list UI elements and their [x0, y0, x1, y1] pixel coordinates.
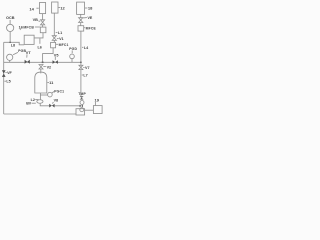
svg-text:12: 12 [60, 5, 65, 10]
svg-text:19: 19 [95, 98, 100, 103]
leader PGC [52, 92, 54, 94]
label PGD [69, 47, 77, 51]
label TMP [78, 92, 86, 96]
svg-text:V1: V1 [59, 37, 64, 41]
wire chamber exhaust [39, 93, 41, 100]
leader to label 18 [85, 7, 87, 9]
wire PGD stem [71, 59, 73, 63]
leader OCB [9, 20, 11, 24]
wire VE to MFCE [80, 23, 82, 26]
label L4 [84, 46, 89, 50]
leader VF [5, 71, 6, 73]
MFC unit MFCB [40, 27, 46, 33]
svg-text:VB: VB [33, 18, 39, 22]
leader L4 [82, 46, 83, 48]
leader L7 [82, 74, 83, 76]
label PGC [54, 89, 64, 93]
svg-text:VE: VE [88, 16, 93, 20]
scrubber box 19 [93, 106, 102, 114]
wire V1 to MFC1 [53, 40, 55, 42]
leader VB [38, 20, 40, 22]
label V5 [54, 53, 59, 57]
valve V8 bowtie [49, 104, 54, 108]
gas source box 12 [52, 2, 58, 13]
svg-text:L4: L4 [84, 46, 89, 50]
svg-text:MFCB: MFCB [23, 26, 34, 30]
junction bowtie at exhaust [80, 105, 83, 108]
leader PGB [13, 52, 18, 54]
svg-text:OCB: OCB [6, 16, 15, 20]
wire bottom line [4, 113, 76, 115]
svg-text:VF: VF [7, 71, 12, 75]
turbo pump circle [80, 101, 84, 105]
svg-text:L1: L1 [58, 31, 62, 35]
leader L1 [56, 31, 58, 33]
valve VE [79, 18, 83, 23]
leader L2 [35, 99, 38, 101]
svg-text:L7: L7 [83, 74, 87, 78]
wire manifold line [4, 61, 81, 63]
svg-text:V2: V2 [47, 66, 52, 70]
svg-text:PGD: PGD [69, 47, 77, 51]
label MFC1 [59, 43, 69, 47]
valve V1 [52, 36, 56, 41]
label VE [88, 16, 93, 20]
label 19 [95, 98, 100, 103]
svg-text:L2: L2 [31, 98, 35, 102]
svg-text:L8: L8 [11, 43, 15, 47]
label PGB [18, 49, 26, 53]
label 12 [60, 5, 65, 10]
wire V2 to chamber [40, 69, 42, 73]
svg-text:V8: V8 [54, 99, 59, 103]
leader VE [83, 17, 87, 19]
label V7 [85, 66, 90, 70]
wire PGB stem [9, 60, 11, 62]
wire valve VB to MFCB [42, 25, 44, 27]
label L7 [83, 74, 87, 78]
label 11 [49, 80, 54, 85]
label V8 [54, 99, 59, 103]
wire evac down [80, 70, 82, 97]
label 16 [19, 25, 23, 29]
leader V5 [54, 57, 56, 60]
valve V2 [39, 65, 43, 70]
svg-text:V5: V5 [54, 53, 59, 57]
valve VB [41, 20, 45, 25]
label 14 [29, 6, 34, 11]
wire pump to scrubber [85, 109, 94, 111]
valve V5 bowtie [53, 60, 58, 64]
label L2 [31, 98, 35, 102]
leader L6 [39, 38, 41, 43]
junction node L8/OCB [9, 42, 11, 43]
valve V7 [79, 65, 83, 69]
label VB [33, 18, 39, 22]
label OCB [6, 16, 15, 20]
svg-text:L6: L6 [38, 46, 42, 50]
leader MFCB [35, 26, 40, 28]
svg-text:PGC1: PGC1 [54, 89, 64, 93]
wire exhaust to pump [55, 105, 81, 107]
label V1 [59, 37, 64, 41]
label L8 [11, 43, 15, 47]
label L6 [38, 46, 42, 50]
leader L5 [4, 80, 6, 82]
wire left border vertical [3, 42, 5, 114]
leader 16 [19, 29, 21, 30]
gas source box 14 [40, 3, 46, 14]
pressure gauge PGD [70, 54, 75, 59]
turbo pump valve [80, 96, 84, 99]
svg-text:L5: L5 [6, 80, 10, 84]
wire MFC1 down left to manifold [43, 48, 54, 63]
mixer box [24, 35, 34, 44]
leader MFCE [84, 27, 85, 29]
leader to box 14 [36, 7, 38, 9]
svg-text:MFCE: MFCE [86, 27, 97, 31]
svg-text:14: 14 [29, 6, 34, 11]
label VF [7, 71, 12, 75]
valve VT bowtie [25, 60, 30, 64]
svg-text:MFC1: MFC1 [59, 43, 69, 47]
label L5 [6, 80, 10, 84]
label V2 [47, 66, 52, 70]
leader V1 [57, 38, 59, 40]
pump box [76, 109, 85, 115]
label VT [26, 51, 32, 55]
pressure gauge PGC [48, 92, 53, 97]
wire L8 horizontal [4, 42, 25, 45]
leader BV [32, 102, 36, 104]
leader MFC1 [56, 43, 58, 45]
leader PGD [71, 50, 73, 53]
wire evac line from manifold [80, 62, 82, 65]
ozonizer OCB circle [7, 24, 14, 31]
MFC unit MFCE [78, 26, 84, 31]
junction node manifold/evac [80, 62, 82, 63]
svg-text:11: 11 [49, 80, 54, 85]
leader V2 [43, 66, 46, 68]
wire oval down and right [40, 103, 49, 106]
valve VF bowtie on left line [2, 70, 6, 77]
label L1 [58, 31, 62, 35]
wire chain1 from box 12 [53, 13, 55, 36]
leader 11 [47, 82, 49, 84]
wire MFCE to manifold [80, 31, 82, 62]
pump circle 2 [80, 108, 84, 112]
label MFCB [23, 26, 34, 30]
leader V8 [52, 102, 53, 104]
svg-text:16: 16 [19, 25, 23, 29]
MFC unit MFC1 [51, 42, 56, 47]
leader VT [26, 54, 28, 57]
pressure gauge PGB [7, 54, 13, 60]
label MFCE [86, 27, 97, 31]
throttle valve oval [37, 100, 43, 104]
label BV [26, 102, 32, 106]
leader 19 [94, 102, 96, 105]
leader to label 12 [58, 7, 60, 9]
process chamber 11 [35, 72, 47, 93]
svg-text:BV: BV [26, 102, 32, 106]
label 18 [88, 6, 93, 11]
wire box14 to valve VB [42, 14, 44, 20]
junction node at manifold/V2 [42, 62, 44, 64]
wire PGC stem [40, 94, 47, 96]
wire box 18 to valve VE [80, 14, 82, 17]
leader V7 [83, 67, 84, 69]
svg-text:TMP: TMP [78, 92, 86, 96]
gas source box 18 [77, 2, 85, 14]
wire MFCB down and left into mixer box [34, 33, 43, 38]
svg-text:18: 18 [88, 6, 93, 11]
svg-text:V7: V7 [85, 66, 90, 70]
wire OCB to line L8 [9, 32, 11, 43]
